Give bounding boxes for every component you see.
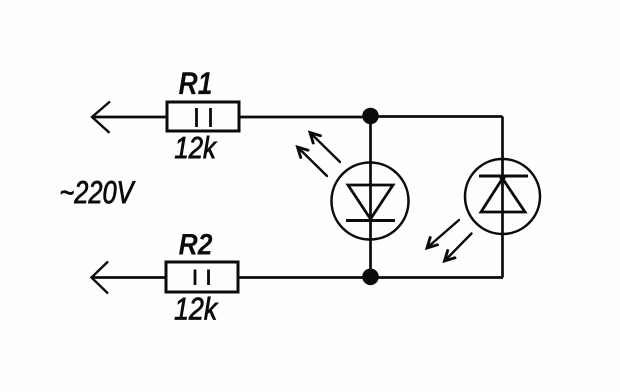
LED D1 emission arrow 2	[298, 147, 328, 176]
wire: top node to right corner	[370, 115, 503, 118]
wire: R1 to top node	[239, 116, 370, 119]
LED D2 emission arrow 2	[445, 234, 472, 262]
resistor R1	[167, 102, 239, 131]
wire: vertical branch through LED D1	[369, 117, 372, 277]
LED D2 anode apex blob	[500, 175, 506, 181]
label R1	[179, 72, 211, 94]
LED D2 circle	[465, 159, 540, 234]
resistor R1 value 12k	[175, 136, 217, 158]
wire: right vertical segment	[501, 117, 504, 278]
LED D1 triangle	[348, 185, 393, 219]
wire: top-left terminal arrow	[92, 102, 110, 133]
junction node top	[362, 108, 379, 125]
LED D2 triangle	[481, 179, 525, 213]
LED D2 emission arrow 1	[427, 220, 459, 248]
resistor R2 value 12k	[175, 297, 219, 320]
wire: bottom-left terminal arrow	[92, 262, 109, 294]
LED D1 cathode bar	[346, 219, 395, 222]
wire: bottom horizontal segment	[92, 276, 504, 279]
resistor R2	[166, 262, 238, 292]
junction node bottom	[362, 269, 379, 286]
label ~220V source	[61, 181, 136, 204]
LED D2 cathode bar	[479, 175, 528, 178]
wire: top-left horizontal segment to R1	[92, 116, 167, 119]
label R2	[179, 234, 212, 255]
LED D1 emission arrow 1	[310, 133, 340, 163]
LED D1 circle	[332, 163, 409, 240]
